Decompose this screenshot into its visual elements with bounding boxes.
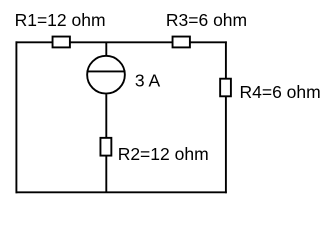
wire top-middle segment bbox=[70, 41, 173, 43]
label R1=12 ohm bbox=[15, 10, 106, 30]
label 3 A bbox=[135, 71, 161, 91]
wire middle vertical (source to R2) bbox=[105, 94, 107, 137]
wire right side lower bbox=[225, 96, 227, 193]
wire top-left segment bbox=[16, 41, 53, 43]
svg-text:R2=12 ohm: R2=12 ohm bbox=[118, 144, 209, 164]
label R4=6 ohm bbox=[240, 82, 321, 102]
wire left side bbox=[15, 41, 17, 193]
svg-text:3 A: 3 A bbox=[135, 71, 161, 91]
wire top-right segment bbox=[190, 41, 227, 43]
wire bottom side bbox=[16, 191, 227, 193]
current source I1 bbox=[87, 56, 126, 94]
resistor R2 bbox=[100, 138, 111, 156]
resistor R4 bbox=[220, 79, 231, 97]
svg-text:R4=6 ohm: R4=6 ohm bbox=[240, 82, 321, 102]
node top-middle junction bbox=[105, 42, 107, 55]
svg-text:R1=12 ohm: R1=12 ohm bbox=[15, 10, 106, 30]
wire middle vertical bottom bbox=[105, 156, 107, 193]
resistor R1 bbox=[53, 37, 70, 48]
label R3=6 ohm bbox=[166, 10, 247, 30]
svg-text:R3=6 ohm: R3=6 ohm bbox=[166, 10, 247, 30]
wire right side upper bbox=[225, 41, 227, 78]
label R2=12 ohm bbox=[118, 144, 209, 164]
resistor R3 bbox=[173, 37, 190, 48]
